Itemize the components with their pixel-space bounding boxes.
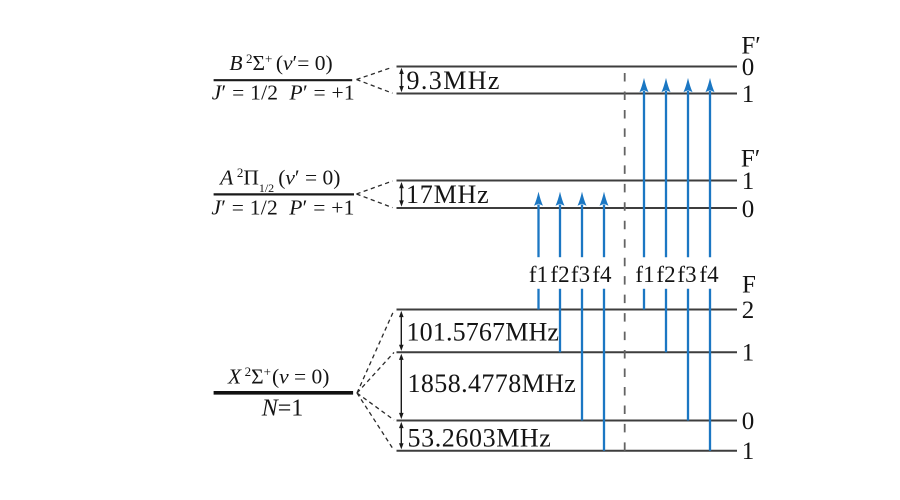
measure arrow 1858.4778MHz (399, 354, 404, 419)
measure arrow 53.2603MHz (399, 422, 404, 450)
svg-text:1: 1 (742, 340, 755, 367)
transition arrow f4 left (600, 192, 609, 451)
svg-text:N=1: N=1 (261, 395, 304, 421)
state label X base bar (214, 391, 354, 395)
svg-text:f1: f1 (529, 262, 548, 287)
fan dashes B lower (357, 80, 393, 94)
svg-text:2: 2 (742, 297, 755, 324)
svg-text:101.5767MHz: 101.5767MHz (407, 318, 560, 347)
transition arrow f2 left (556, 192, 565, 353)
svg-text:1: 1 (742, 81, 755, 108)
level line X F=0 (397, 420, 738, 422)
svg-text:53.2603MHz: 53.2603MHz (408, 424, 552, 453)
svg-text:0: 0 (742, 408, 755, 435)
svg-text:0: 0 (742, 196, 755, 223)
level line A F'=1 (397, 180, 738, 182)
svg-text:J′ = 1/2 P′ = +1: J′ = 1/2 P′ = +1 (212, 81, 355, 105)
state label B fraction bar (214, 79, 353, 81)
transition arrow f2 right (662, 78, 671, 352)
fan dashes A lower (357, 194, 393, 208)
svg-text:1: 1 (742, 438, 755, 465)
level line A F'=0 (397, 207, 738, 209)
dashed separator line (624, 73, 626, 451)
svg-text:F: F (742, 272, 756, 299)
level line X F=1 (397, 351, 738, 353)
svg-text:J′ = 1/2 P′ = +1: J′ = 1/2 P′ = +1 (211, 195, 354, 219)
fan dashes A upper (357, 181, 393, 194)
svg-text:1: 1 (742, 168, 755, 195)
fan dashes X to F=1 (357, 352, 394, 393)
level line B F'=1 (397, 93, 738, 95)
fan dashes X to F=0 (357, 393, 394, 420)
measure arrow 9.3MHz (399, 68, 404, 92)
svg-text:f2: f2 (656, 262, 675, 287)
svg-text:0: 0 (742, 54, 755, 81)
transition arrow f3 left (578, 192, 587, 421)
measure arrow 17MHz (399, 182, 404, 207)
svg-text:f4: f4 (699, 262, 719, 287)
svg-text:9.3MHz: 9.3MHz (407, 66, 501, 95)
fan dashes X to F=2 (357, 310, 394, 393)
svg-text:17MHz: 17MHz (406, 180, 489, 209)
svg-text:1858.4778MHz: 1858.4778MHz (408, 369, 577, 398)
fan dashes B upper (357, 67, 393, 79)
svg-text:f1: f1 (635, 262, 654, 287)
level line X F=2 (397, 309, 738, 311)
transition arrow f4 right (706, 78, 715, 451)
level line B F'=0 (397, 66, 738, 68)
fan dashes X to F=1 bottom (357, 393, 394, 450)
svg-text:f3: f3 (677, 262, 696, 287)
transition arrow f1 left (534, 192, 543, 310)
level line X F=1 bottom (397, 450, 738, 452)
state label A fraction bar (214, 193, 354, 195)
transition arrow f3 right (684, 78, 693, 421)
transition arrow f1 right (640, 78, 649, 310)
svg-text:f2: f2 (550, 262, 569, 287)
svg-text:f3: f3 (571, 262, 590, 287)
measure arrow 101.5767MHz (399, 311, 404, 351)
svg-text:f4: f4 (592, 262, 612, 287)
